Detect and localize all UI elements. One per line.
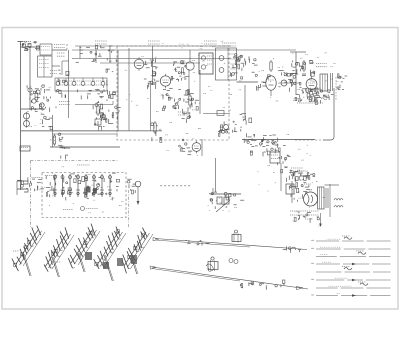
tube V2 IF amp xyxy=(160,74,170,88)
cluster trimmers right xyxy=(101,69,116,99)
label SW3 xyxy=(96,265,102,267)
label xyxy=(305,218,313,220)
label xyxy=(222,43,236,46)
cluster caps row xyxy=(281,167,302,182)
speaker circle xyxy=(304,192,318,206)
wire bus lower xyxy=(50,146,120,148)
value labels scatter xyxy=(125,55,233,111)
box volume xyxy=(270,152,280,163)
wire bus heater xyxy=(100,62,200,64)
cluster xyxy=(112,106,121,120)
wire vertical xyxy=(68,50,70,118)
bus tick xyxy=(95,50,97,63)
dashed stub xyxy=(335,77,337,100)
rod2 mid detail xyxy=(259,280,285,290)
dash-dot mech line xyxy=(31,160,119,162)
wire dashed xyxy=(160,185,191,187)
label 24 xyxy=(95,41,107,44)
wire dashed xyxy=(295,139,332,141)
padder stack C xyxy=(24,112,30,128)
wire xyxy=(152,46,154,85)
tube V5 output xyxy=(266,76,276,96)
value labels scatter xyxy=(208,199,237,211)
wire xyxy=(279,82,300,84)
part xyxy=(41,114,53,129)
wire xyxy=(29,46,31,110)
wire stub xyxy=(212,188,214,194)
wire xyxy=(244,85,246,120)
node cluster ant xyxy=(22,41,39,50)
rod2 coil wrap xyxy=(206,264,213,271)
wire corner xyxy=(323,137,334,140)
dashed box RF tuner unit xyxy=(117,46,229,140)
wire xyxy=(325,184,340,186)
rod1 left tip xyxy=(153,238,159,241)
label SW1 xyxy=(13,250,19,252)
wire xyxy=(150,85,152,131)
wire bus mid heavy xyxy=(21,130,118,132)
dial lamp circle xyxy=(135,181,141,187)
rod1 clamp xyxy=(232,230,241,243)
label xyxy=(54,45,65,48)
cluster arrows right xyxy=(337,74,347,90)
dark blob xyxy=(103,262,109,269)
wire xyxy=(52,65,60,67)
cluster xyxy=(278,155,291,165)
box pair phono xyxy=(217,197,229,204)
variable cap circle xyxy=(32,99,36,103)
pushbutton switch S7 xyxy=(100,174,104,197)
cluster label 108 xyxy=(182,109,191,123)
dash-dot linkage xyxy=(128,190,130,228)
coil right of box xyxy=(127,179,136,194)
output transformer box xyxy=(318,187,329,209)
label rows xyxy=(316,64,327,67)
wire xyxy=(112,101,114,105)
cluster V2 parts xyxy=(171,61,189,82)
trimmer capacitor CT6 xyxy=(101,78,105,85)
switch wafer assembly W5 xyxy=(122,228,153,274)
legend line 3 xyxy=(316,255,391,257)
cluster below T3 xyxy=(218,121,242,136)
switch wafer assembly W4 xyxy=(94,227,126,281)
part xyxy=(58,133,70,159)
label pair xyxy=(57,53,65,56)
cluster phono xyxy=(209,192,244,209)
legend fig squiggle xyxy=(342,267,352,270)
wire bus AVC xyxy=(72,58,231,60)
resistor chain xyxy=(302,60,306,76)
rod1 mid detail xyxy=(185,240,209,245)
wire xyxy=(75,104,113,106)
variable cap circle xyxy=(40,103,44,107)
wire xyxy=(21,108,45,110)
cluster xyxy=(278,71,294,92)
dash-dot mech drop xyxy=(30,161,32,229)
tube V4 1st audio xyxy=(192,141,201,154)
label ANT TRIM xyxy=(32,176,55,178)
small tube circle xyxy=(281,80,287,86)
cluster switch row extra xyxy=(46,173,119,200)
field coil 2 xyxy=(334,206,343,208)
pushbutton switch S2 xyxy=(61,174,65,197)
tube circle xyxy=(186,50,194,70)
cluster xyxy=(240,114,252,125)
switch wafer assembly W3 xyxy=(68,224,100,272)
switch contact hooks xyxy=(17,181,28,195)
cluster xyxy=(179,139,193,155)
capacitor C1 xyxy=(24,49,28,51)
field coil xyxy=(334,199,343,201)
tube V1 converter xyxy=(134,57,144,71)
pin column xyxy=(289,181,298,203)
value labels scatter xyxy=(300,53,338,100)
wire bus B+ main xyxy=(72,49,296,51)
IF transformer box T3 xyxy=(216,48,237,80)
value labels scatter xyxy=(257,134,311,192)
dark blob xyxy=(131,255,137,264)
tube V6 rect xyxy=(306,77,317,92)
legend fig squiggle xyxy=(356,251,366,254)
switch wafer assembly W1 xyxy=(12,226,45,276)
pushbutton switch S4 xyxy=(76,174,80,197)
wire bus B+ upper xyxy=(75,45,231,47)
resistor R20 xyxy=(270,60,272,72)
dark blob xyxy=(85,252,92,260)
wire vertical xyxy=(199,70,201,114)
legend fig squiggle xyxy=(342,236,352,239)
value labels scatter xyxy=(292,173,326,226)
cluster xyxy=(301,180,310,199)
rod1 right detail xyxy=(283,246,302,253)
legend fig squiggle xyxy=(358,282,368,285)
switch wafer assembly W2 xyxy=(44,227,74,277)
resistor R10 xyxy=(189,94,191,107)
wire xyxy=(210,193,241,195)
small fitting circles xyxy=(229,259,238,264)
cluster xyxy=(262,135,286,156)
value labels scatter xyxy=(36,167,124,213)
wire xyxy=(329,184,331,217)
box L1 ant coil xyxy=(40,44,52,55)
antenna symbol xyxy=(18,42,32,46)
trimmer capacitor CT1 xyxy=(56,78,60,85)
trimmer capacitor CT2 xyxy=(64,78,68,85)
cluster below V6 xyxy=(295,87,333,104)
value labels scatter xyxy=(27,85,51,126)
label pair xyxy=(297,170,308,172)
IF transformer box T2 xyxy=(199,53,213,74)
dashed box pushbutton unit xyxy=(42,173,126,218)
cluster switch blobs xyxy=(83,184,101,198)
label xyxy=(178,112,188,115)
small tube det xyxy=(224,125,229,130)
box small xyxy=(286,184,294,194)
value labels scatter xyxy=(165,123,202,156)
cluster caps row2 xyxy=(298,172,315,180)
wire xyxy=(128,48,130,131)
bus tick xyxy=(109,46,111,63)
pushbutton switch S1 xyxy=(53,174,57,197)
wire vertical xyxy=(188,69,190,95)
value labels scatter xyxy=(50,136,63,147)
osc coil column xyxy=(93,100,113,131)
wire vertical right xyxy=(295,52,297,95)
wire xyxy=(117,50,119,131)
label 15xxx xyxy=(63,207,98,211)
rod2 left tip xyxy=(150,266,156,269)
wire vertical x335 xyxy=(333,88,335,137)
node cluster xyxy=(58,70,69,85)
dial rod 2 xyxy=(152,267,308,289)
legend line 2 xyxy=(312,247,391,249)
label pair xyxy=(59,102,70,105)
label xyxy=(77,164,90,166)
label 24V xyxy=(204,41,217,44)
label rows xyxy=(291,168,303,171)
resistor R mid xyxy=(53,134,55,146)
wire xyxy=(62,61,69,75)
wire w arrow xyxy=(137,187,140,205)
trimmer capacitor CT5 xyxy=(91,78,95,85)
cluster xyxy=(292,61,315,77)
pin labels row xyxy=(290,211,319,223)
legend line 1 xyxy=(312,239,391,241)
label xyxy=(148,41,160,44)
cluster small xyxy=(247,140,258,155)
label BL xyxy=(50,71,57,74)
wire xyxy=(203,113,230,115)
wire xyxy=(215,158,217,192)
wire xyxy=(21,46,41,48)
resistor R xyxy=(154,121,156,134)
cluster below gang xyxy=(56,89,110,99)
cluster det parts 2 xyxy=(240,55,258,72)
trimmer capacitor CT3 xyxy=(72,78,76,85)
cluster drive parts xyxy=(255,74,270,91)
legend line 6 xyxy=(312,278,391,281)
tube circle small xyxy=(36,90,40,94)
squiggle label xyxy=(321,98,327,100)
legend line 8 xyxy=(312,294,391,297)
wire left rail xyxy=(20,44,22,190)
cluster V1 parts xyxy=(144,59,159,90)
rod2 clamp xyxy=(208,257,218,271)
bus tick xyxy=(79,46,81,59)
wire xyxy=(280,163,282,191)
box T1 ant transformer xyxy=(38,56,53,77)
diagonal link xyxy=(216,200,230,212)
label A6 xyxy=(304,183,311,185)
box small xyxy=(20,146,30,151)
cluster osc parts xyxy=(27,85,50,100)
cluster mid xyxy=(151,123,162,143)
cluster right of V5 xyxy=(290,73,301,87)
tube circle small xyxy=(28,88,32,92)
pushbutton switch S6 xyxy=(92,174,96,197)
legend line 7 xyxy=(316,286,391,288)
output transformer T4 xyxy=(320,74,328,91)
wire bus mid xyxy=(118,130,162,132)
value labels scatter xyxy=(162,41,224,49)
tuning gang hatch box xyxy=(55,78,107,91)
wire xyxy=(237,81,259,83)
cluster left tuner xyxy=(31,97,56,113)
rod2 end fitting xyxy=(240,281,303,290)
dial rod 1 xyxy=(155,239,307,250)
pushbutton switch S3 xyxy=(68,174,72,197)
cluster ant trim xyxy=(17,177,44,191)
wire arrow down xyxy=(319,213,322,227)
box small xyxy=(217,111,224,116)
trimmer capacitor CT4 xyxy=(81,78,85,85)
cluster resistor bank xyxy=(162,88,199,111)
cluster on bus xyxy=(244,133,271,145)
wire xyxy=(52,49,67,51)
wire xyxy=(290,51,306,53)
legend line 4 xyxy=(312,262,391,265)
value labels scatter xyxy=(239,54,301,101)
pushbutton switch S5 xyxy=(84,174,88,197)
winding bars xyxy=(331,73,333,91)
bus component cluster xyxy=(76,45,117,62)
dashed shield line xyxy=(66,44,68,50)
legend line 5 xyxy=(316,270,391,272)
wire xyxy=(52,115,54,147)
label SW2 xyxy=(55,261,61,263)
label xyxy=(297,102,323,104)
dark blob xyxy=(117,258,123,266)
wire xyxy=(201,140,203,156)
pushbutton switch S8 xyxy=(108,174,112,197)
wire bus mid2 xyxy=(52,133,118,135)
cluster det parts xyxy=(231,54,245,80)
wire bus xyxy=(242,139,315,141)
